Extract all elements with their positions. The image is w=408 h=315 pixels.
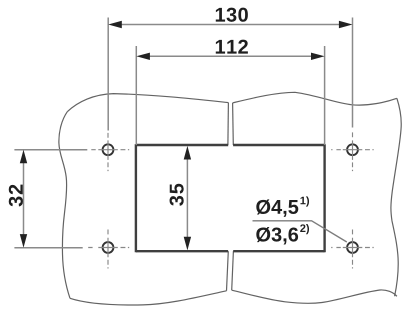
label diameter 3,6 (256, 227, 298, 244)
dimension 130 text (216, 8, 248, 22)
dimension 112 line (136, 46, 324, 145)
panel right piece right edge (391, 98, 401, 296)
panel left piece top edge (67, 94, 228, 112)
label superscript 2) (300, 224, 309, 234)
dimension 35 line (186, 158, 188, 238)
label superscript 1) (300, 196, 309, 206)
panel break line lower-left (227, 251, 229, 291)
dimension 130 extension line right (352, 18, 354, 128)
dimension 112 extension line right (324, 46, 326, 145)
dimension 32 arrow top (20, 150, 27, 164)
hole bottom-right centerlines (331, 230, 374, 269)
hole bottom-left centerlines (88, 230, 129, 269)
dimension 32 arrow bottom (20, 234, 27, 248)
hole top-left (103, 144, 114, 155)
hole top-right centerlines (331, 132, 374, 171)
dimension 130 arrow left (108, 21, 122, 28)
hole top-right (347, 144, 358, 155)
dimension 112 arrow left (136, 53, 150, 60)
panel break line lower-right (232, 251, 234, 290)
panel right piece bottom edge (232, 290, 397, 303)
label leader line (253, 221, 347, 242)
cutout rectangle (136, 144, 325, 252)
dimension 112 text (216, 40, 248, 54)
panel left piece bottom edge (70, 291, 227, 305)
label diameter 4,5 (256, 199, 298, 216)
panel right piece top edge (233, 92, 397, 105)
dimension 32 extension line top (14, 149, 87, 151)
dimension 130 extension line left (107, 18, 109, 131)
dimension 35 arrow bottom (184, 237, 191, 251)
dimension 35 text (170, 184, 184, 206)
dimension 112 arrow right (311, 53, 325, 60)
dimension 112 extension line left (135, 46, 137, 145)
panel break line upper-left (227, 103, 230, 145)
dimension 130 arrow right (339, 21, 353, 28)
hole bottom-left (103, 242, 114, 253)
panel left piece left edge (59, 112, 70, 299)
hole bottom-right (347, 242, 358, 253)
dimension 32 line (14, 150, 87, 248)
dimension 35 arrow top (184, 146, 191, 160)
panel break line upper-right (232, 103, 235, 145)
dimension 130 line (108, 18, 352, 131)
dimension 32 text (9, 185, 23, 207)
dimension 32 extension line bottom (14, 247, 82, 249)
hole top-left centerlines (91, 133, 129, 171)
